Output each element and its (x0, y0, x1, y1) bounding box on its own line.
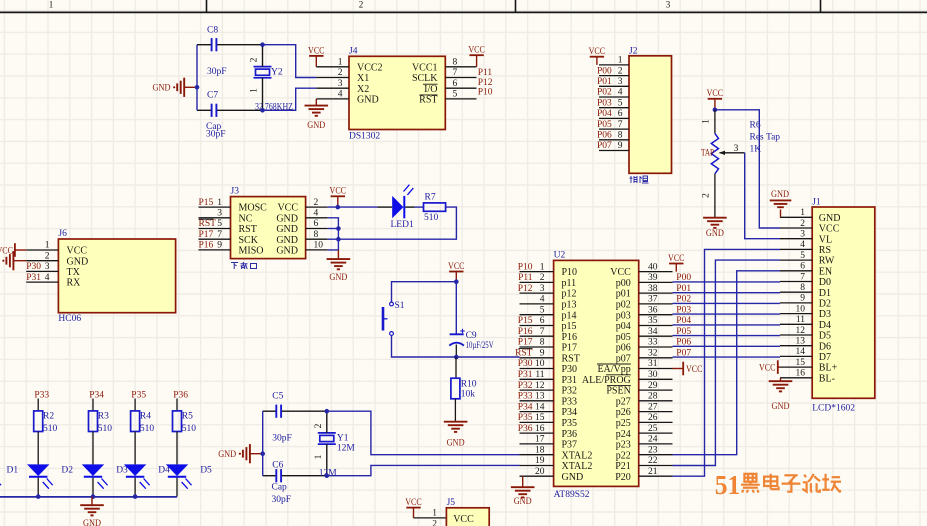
wire D0 bus (673, 281, 781, 283)
svg-text:TAP: TAP (701, 148, 714, 158)
svg-text:33: 33 (648, 338, 658, 348)
net label P17 at U2 pin8 (518, 338, 533, 348)
svg-text:12M: 12M (337, 444, 356, 454)
net label P07 at J2 (597, 141, 612, 151)
svg-text:3: 3 (800, 230, 805, 240)
power VCC at S1 (448, 262, 465, 282)
svg-text:30pF: 30pF (207, 67, 227, 77)
net label P11 at U2 pin2 (518, 273, 533, 283)
svg-text:X2: X2 (357, 84, 369, 95)
label Y1 designator (337, 434, 349, 444)
svg-text:P16: P16 (562, 332, 578, 343)
resistor R5 (173, 411, 182, 432)
svg-text:p22: p22 (616, 450, 631, 461)
svg-text:P30: P30 (518, 359, 533, 369)
svg-text:P35: P35 (518, 413, 533, 423)
svg-text:p00: p00 (616, 278, 631, 289)
svg-text:P03: P03 (676, 305, 691, 315)
wire D3 cathode (92, 478, 94, 497)
power VCC at J4 pin1 (308, 46, 325, 67)
svg-text:GND: GND (562, 472, 584, 483)
svg-text:30pF: 30pF (272, 495, 292, 505)
svg-text:16: 16 (535, 424, 545, 434)
svg-text:EA/Vpp: EA/Vpp (597, 364, 630, 375)
label C8 designator (207, 26, 218, 36)
label U2 part AT89S52 (554, 490, 590, 500)
label R2 designator (43, 411, 54, 421)
svg-text:P16: P16 (199, 241, 214, 251)
svg-text:12: 12 (796, 326, 806, 336)
svg-text:XTAL2: XTAL2 (562, 450, 593, 461)
svg-text:1: 1 (338, 58, 343, 68)
svg-text:5: 5 (540, 305, 545, 315)
ground GND at R10 (444, 422, 468, 449)
svg-text:p03: p03 (616, 310, 631, 321)
svg-text:RS: RS (819, 245, 831, 256)
svg-text:26: 26 (648, 413, 658, 423)
net label TAP (701, 148, 714, 158)
svg-text:P02: P02 (676, 295, 691, 305)
svg-text:VCC: VCC (819, 224, 840, 235)
junction Y1 bottom (325, 473, 330, 478)
svg-text:D1: D1 (7, 466, 19, 476)
svg-text:GND: GND (83, 519, 101, 526)
svg-text:9: 9 (217, 241, 222, 251)
ground GND at J1 pin16 (769, 378, 793, 412)
junction bus D4 (133, 494, 138, 499)
label R7 value 510 (424, 213, 439, 223)
label D1 designator (7, 466, 19, 476)
label U2 designator (554, 251, 566, 261)
svg-text:LED1: LED1 (391, 220, 414, 230)
net label P36 (173, 390, 188, 400)
svg-text:1K: 1K (750, 145, 762, 155)
svg-text:GND: GND (706, 229, 724, 239)
svg-text:Y1: Y1 (337, 434, 349, 444)
net label P00 at J2 (597, 66, 612, 76)
svg-text:3: 3 (734, 144, 739, 154)
svg-text:GND: GND (307, 121, 325, 131)
svg-text:GND: GND (771, 190, 789, 200)
wire VCC to J5 pin1 (414, 517, 447, 519)
sheet border (0, 0, 927, 12)
svg-text:3: 3 (540, 284, 545, 294)
connector J3 (199, 197, 328, 259)
net label P05 at U2 pin34 (676, 327, 691, 337)
svg-text:D5: D5 (819, 331, 831, 342)
svg-text:8: 8 (540, 338, 545, 348)
svg-text:VCC: VCC (589, 47, 606, 57)
capacitor C5 (263, 405, 327, 418)
capacitor C8 (197, 38, 263, 51)
svg-text:p15: p15 (562, 321, 577, 332)
svg-text:P11: P11 (518, 273, 533, 283)
svg-text:23: 23 (648, 445, 658, 455)
svg-text:2: 2 (800, 219, 805, 229)
wire R7 to gnd rail (338, 207, 456, 239)
label R10 value 10k (461, 389, 476, 399)
label J6 part HC06 (58, 314, 81, 324)
wire Y2 bottom to X2 (263, 88, 317, 110)
wire VCC to S1 (392, 282, 457, 303)
svg-text:17: 17 (535, 435, 545, 445)
label LED1 designator (391, 220, 414, 230)
svg-text:XTAL2: XTAL2 (562, 461, 593, 472)
wire P36 to R5 (176, 399, 178, 411)
svg-text:RST: RST (419, 95, 437, 106)
svg-text:5: 5 (618, 98, 623, 108)
svg-text:2: 2 (540, 273, 545, 283)
net label P17 at J3 (199, 230, 214, 240)
label C5 value 30pF (272, 433, 292, 443)
svg-text:13: 13 (796, 337, 806, 347)
junction bus D3 (91, 494, 96, 499)
svg-text:U2: U2 (554, 251, 566, 261)
net label P31 at U2 pin11 (518, 370, 533, 380)
label R10 designator (461, 380, 477, 390)
svg-text:7: 7 (453, 68, 458, 78)
net label P05 at J2 (597, 120, 612, 130)
wire D2 bus (673, 302, 781, 304)
svg-text:p13: p13 (562, 300, 577, 311)
svg-text:P36: P36 (562, 429, 578, 440)
net label P12 (478, 78, 493, 88)
svg-text:P17: P17 (199, 230, 214, 240)
svg-text:P10: P10 (518, 262, 533, 272)
svg-text:GND: GND (276, 246, 298, 257)
svg-text:J4: J4 (349, 47, 358, 57)
svg-text:3: 3 (338, 79, 343, 89)
svg-text:6: 6 (453, 79, 458, 89)
svg-text:VCC2: VCC2 (357, 62, 383, 73)
wire D7 bus (673, 356, 781, 358)
wire EN J1pin6 to U2pin23 (673, 271, 781, 455)
wire RS J1pin4 to U2pin21 (673, 249, 781, 476)
wire D2 cathode (37, 478, 39, 497)
svg-text:SCK: SCK (239, 235, 259, 246)
svg-text:Cap: Cap (272, 483, 288, 493)
net label P35 at U2 pin15 (518, 413, 533, 423)
svg-text:2: 2 (314, 423, 324, 428)
svg-text:1: 1 (45, 241, 50, 251)
svg-text:R4: R4 (140, 411, 151, 421)
svg-text:MISO: MISO (239, 246, 264, 257)
svg-text:35: 35 (648, 316, 658, 326)
svg-text:P30: P30 (26, 262, 41, 272)
svg-text:1: 1 (800, 208, 805, 218)
diode D4 (124, 464, 150, 488)
wire R5 to D5 (176, 432, 178, 465)
svg-text:D6: D6 (819, 341, 831, 352)
svg-text:D3: D3 (116, 466, 128, 476)
svg-text:GND: GND (276, 213, 298, 224)
svg-text:P00: P00 (597, 66, 612, 76)
net label P10 at U2 pin1 (518, 262, 533, 272)
svg-text:510: 510 (43, 424, 58, 434)
svg-text:5: 5 (800, 251, 805, 261)
label Y2 designator (271, 68, 283, 78)
svg-text:C7: C7 (207, 91, 218, 101)
svg-text:C8: C8 (207, 26, 218, 36)
capacitor C6 (263, 469, 327, 482)
svg-text:X1: X1 (357, 73, 369, 84)
capacitor C9 (449, 282, 464, 357)
resistor R2 (34, 411, 43, 432)
svg-text:VCC: VCC (453, 514, 474, 525)
svg-text:Res Tap: Res Tap (750, 133, 781, 143)
svg-text:D3: D3 (819, 309, 831, 320)
svg-text:1: 1 (250, 88, 260, 93)
svg-text:P15: P15 (199, 198, 214, 208)
label C8 value 30pF (207, 67, 227, 77)
svg-text:2: 2 (618, 66, 623, 76)
svg-text:6: 6 (540, 316, 545, 326)
svg-text:p07: p07 (616, 353, 631, 364)
net label P02 at J2 (597, 88, 612, 98)
potentiometer R6 (711, 110, 718, 218)
junction J3 gnd pin6 (336, 226, 341, 231)
wire D6 bus (673, 345, 781, 347)
net label P16 at U2 pin7 (518, 327, 533, 337)
label Y1 pin 1 (314, 454, 324, 459)
svg-text:D2: D2 (61, 466, 73, 476)
svg-text:P12: P12 (518, 284, 533, 294)
svg-text:1: 1 (217, 198, 222, 208)
svg-text:p04: p04 (616, 321, 631, 332)
svg-text:2: 2 (432, 520, 437, 526)
wire VCC to LCD pin2 (715, 110, 780, 228)
svg-text:510: 510 (424, 213, 439, 223)
svg-text:GND: GND (276, 224, 298, 235)
capacitor C7 (197, 104, 296, 117)
svg-text:D4: D4 (819, 320, 831, 331)
net label P04 at J2 (597, 109, 612, 119)
svg-text:12: 12 (535, 381, 545, 391)
svg-text:RST: RST (562, 353, 580, 364)
label C6 designator (272, 461, 283, 471)
svg-text:P33: P33 (34, 390, 49, 400)
svg-text:AT89S52: AT89S52 (554, 490, 590, 500)
svg-text:D0: D0 (819, 277, 831, 288)
svg-text:P10: P10 (562, 267, 578, 278)
switch S1 (383, 302, 393, 335)
label C6 value (272, 483, 292, 506)
svg-text:4: 4 (618, 88, 623, 98)
net label P36 at U2 pin16 (518, 424, 533, 434)
svg-text:8: 8 (314, 230, 319, 240)
wire D5 bus (673, 335, 781, 337)
svg-text:P11: P11 (478, 68, 493, 78)
svg-text:p27: p27 (616, 396, 631, 407)
svg-text:14: 14 (535, 402, 545, 412)
label C9 value (466, 341, 494, 351)
power VCC at J4 pin8 (468, 46, 485, 67)
svg-text:6: 6 (800, 262, 805, 272)
svg-text:P31: P31 (562, 375, 578, 386)
svg-text:GND: GND (819, 213, 841, 224)
svg-text:7: 7 (217, 230, 222, 240)
svg-text:P00: P00 (676, 273, 691, 283)
svg-text:J1: J1 (812, 197, 821, 207)
svg-text:D7: D7 (819, 352, 831, 363)
junction bus D2 (36, 494, 41, 499)
label D5 designator (200, 466, 212, 476)
svg-text:39: 39 (648, 273, 658, 283)
wire S1 to RST net (392, 335, 457, 357)
diode D5 (166, 464, 192, 488)
diode D3 (82, 464, 108, 488)
svg-text:VCC: VCC (330, 187, 347, 197)
svg-text:37: 37 (648, 295, 658, 305)
svg-text:1: 1 (540, 262, 545, 272)
svg-text:30pF: 30pF (272, 433, 292, 443)
svg-text:P01: P01 (597, 77, 612, 87)
svg-text:GND: GND (276, 235, 298, 246)
wire P34 to R3 (92, 399, 94, 411)
svg-text:R6: R6 (750, 121, 761, 131)
svg-text:VCC: VCC (468, 46, 485, 56)
svg-text:VCC: VCC (448, 262, 465, 272)
svg-text:32: 32 (648, 349, 658, 359)
junction R6 VCC (713, 108, 718, 113)
svg-text:24: 24 (648, 435, 658, 445)
svg-text:36: 36 (648, 305, 658, 315)
svg-text:P31: P31 (518, 370, 533, 380)
svg-text:P36: P36 (173, 390, 188, 400)
svg-text:31: 31 (648, 359, 658, 369)
svg-text:P34: P34 (89, 390, 104, 400)
svg-text:GND: GND (772, 402, 790, 412)
R6 tap arrow (719, 144, 745, 155)
svg-text:5: 5 (453, 90, 458, 100)
label J2 designator (629, 47, 638, 57)
svg-text:HC06: HC06 (58, 314, 81, 324)
net label P03 at J2 (597, 98, 612, 108)
svg-text:16: 16 (796, 369, 806, 379)
wire Y1 bottom to XTAL pin19 (327, 465, 520, 475)
label Y2 value 32.768KHZ (255, 102, 293, 112)
svg-text:VCC: VCC (668, 254, 685, 264)
svg-text:P37: P37 (562, 440, 578, 451)
svg-text:p11: p11 (562, 278, 577, 289)
net label RST at U2 pin9 (515, 349, 533, 359)
wire C8-C7 left rail (196, 45, 198, 111)
svg-text:P30: P30 (562, 364, 578, 375)
svg-text:J2: J2 (629, 47, 638, 57)
power VCC at R6 (707, 89, 724, 110)
ground GND at J4 pin4 (305, 99, 329, 131)
svg-text:p23: p23 (616, 440, 631, 451)
power VCC at J5 (405, 498, 422, 518)
label J4 designator (349, 47, 358, 57)
svg-text:7: 7 (540, 327, 545, 337)
svg-text:15: 15 (535, 413, 545, 423)
net label P16 at J3 (199, 241, 214, 251)
wire TAP to LCD pin3 (745, 153, 780, 239)
svg-text:P02: P02 (597, 88, 612, 98)
net label P02 at U2 pin37 (676, 295, 691, 305)
ground GND at R6 (703, 218, 727, 239)
svg-text:1: 1 (314, 454, 324, 459)
svg-text:10: 10 (796, 304, 806, 314)
diode D2 (27, 464, 53, 488)
label J5 designator (447, 498, 456, 508)
svg-text:RST: RST (239, 224, 257, 235)
svg-text:p05: p05 (616, 332, 631, 343)
net label P33 (34, 390, 49, 400)
IC U2 AT89S52 (520, 260, 673, 486)
svg-text:27: 27 (648, 402, 658, 412)
label C7 value (206, 122, 226, 140)
wire D3 bus (673, 313, 781, 315)
ground GND at J6 pin2 (0, 251, 26, 270)
svg-text:P16: P16 (518, 327, 533, 337)
svg-text:1: 1 (702, 119, 712, 124)
label R5 designator (182, 411, 193, 421)
wire RW J1pin5 to U2pin22 (673, 260, 781, 465)
svg-text:25: 25 (648, 424, 658, 434)
svg-text:RW: RW (819, 256, 835, 267)
svg-text:1: 1 (432, 509, 437, 519)
resistor R4 (131, 411, 140, 432)
svg-text:4: 4 (45, 273, 50, 283)
svg-text:3: 3 (45, 262, 50, 272)
junction crystal-left-GND (195, 85, 200, 90)
svg-text:P06: P06 (676, 338, 691, 348)
svg-text:510: 510 (98, 424, 113, 434)
svg-text:P07: P07 (597, 141, 612, 151)
power VCC at U2 pin31 (673, 362, 703, 376)
svg-text:VCC1: VCC1 (412, 62, 438, 73)
svg-text:2: 2 (250, 57, 260, 62)
svg-text:P32: P32 (562, 386, 578, 397)
svg-text:NC: NC (239, 213, 253, 224)
svg-text:5: 5 (217, 219, 222, 229)
label Y2 pin 2 (250, 57, 260, 62)
svg-text:8: 8 (453, 58, 458, 68)
resistor R3 (89, 411, 98, 432)
net label P30 at U2 pin10 (518, 359, 533, 369)
svg-text:R2: R2 (43, 411, 54, 421)
svg-text:6: 6 (314, 219, 319, 229)
svg-text:1: 1 (49, 0, 54, 10)
ground GND at crystal left (153, 78, 198, 97)
wire RST net (456, 356, 519, 358)
net label P01 at J2 (597, 77, 612, 87)
svg-text:J5: J5 (447, 498, 456, 508)
svg-text:J6: J6 (58, 229, 67, 239)
wire D5 cathode (176, 478, 178, 497)
svg-text:29: 29 (648, 381, 658, 391)
svg-text:R7: R7 (425, 193, 436, 203)
net label P06 at J2 (597, 131, 612, 141)
svg-text:P17: P17 (562, 343, 578, 354)
ground GND at J3 (327, 250, 351, 283)
svg-text:P05: P05 (597, 120, 612, 130)
junction C5C6 gnd (260, 451, 265, 456)
svg-text:LCD*1602: LCD*1602 (812, 403, 855, 413)
label J1 part LCD*1602 (812, 403, 855, 413)
svg-text:p26: p26 (616, 407, 631, 418)
svg-text:p02: p02 (616, 300, 631, 311)
svg-text:30: 30 (648, 370, 658, 380)
wire Y2 top to X1 (263, 45, 317, 78)
wire LED1 to R7 (405, 206, 423, 208)
label C7 designator (207, 91, 218, 101)
svg-text:VCC: VCC (759, 364, 776, 374)
power VCC at J6 pin1 (0, 243, 26, 257)
net label P15 at J3 (199, 198, 214, 208)
